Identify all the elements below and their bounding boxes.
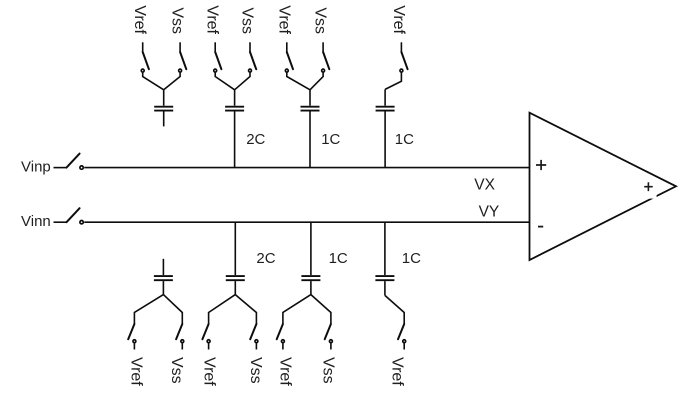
switch S7 (top bank3 Vref) bbox=[285, 42, 310, 90]
svg-text:1C: 1C bbox=[321, 131, 340, 148]
capacitor C1t (top dummy, floating) bbox=[154, 90, 173, 127]
svg-text:Vref: Vref bbox=[128, 357, 145, 386]
switch S6 (top bank2 Vss) bbox=[235, 42, 257, 90]
capacitor C4b 1C (bottom) bbox=[375, 222, 394, 295]
svg-text:Vss: Vss bbox=[168, 357, 185, 384]
svg-text:Vref: Vref bbox=[200, 357, 217, 386]
svg-text:Vss: Vss bbox=[320, 357, 337, 384]
svg-text:Vss: Vss bbox=[239, 7, 256, 34]
capacitor C2b 2C (bottom) bbox=[226, 222, 245, 294]
switch S3 (top bank1 Vref) bbox=[141, 42, 163, 90]
switch S11 (bottom bank1 Vss) bbox=[163, 295, 183, 350]
svg-text:Vref: Vref bbox=[275, 5, 292, 34]
switch S12 (bottom bank2 Vref) bbox=[202, 295, 235, 350]
wire bottom rail (node VY) bbox=[84, 221, 529, 223]
svg-text:Vref: Vref bbox=[277, 357, 294, 386]
svg-text:Vref: Vref bbox=[390, 5, 407, 34]
switch S13 (bottom bank2 Vss) bbox=[235, 295, 258, 350]
svg-text:1C: 1C bbox=[329, 250, 348, 267]
switch S2 (Vinn input) bbox=[54, 208, 84, 224]
svg-text:Vref: Vref bbox=[389, 357, 406, 386]
switch S14 (bottom bank3 Vref) bbox=[277, 295, 311, 350]
output polarity label + bbox=[641, 178, 657, 198]
svg-text:Vinn: Vinn bbox=[21, 213, 51, 230]
pin + (non-inverting input) bbox=[536, 160, 546, 170]
switch S15 (bottom bank3 Vss) bbox=[311, 295, 332, 350]
switch S8 (top bank3 Vss) bbox=[310, 42, 329, 90]
svg-text:Vref: Vref bbox=[204, 5, 221, 34]
pin - (inverting input) bbox=[538, 226, 543, 228]
capacitor C3t 1C (top) bbox=[301, 90, 320, 168]
switch S16 (bottom bank4 Vref) bbox=[385, 295, 406, 349]
capacitor C1b (bottom dummy, floating) bbox=[154, 259, 173, 295]
switch S10 (bottom bank1 Vref) bbox=[128, 295, 163, 350]
svg-text:Vss: Vss bbox=[312, 7, 329, 34]
capacitor C2t 2C (top) bbox=[225, 90, 244, 168]
wire top rail (node VX) bbox=[84, 167, 529, 169]
capacitor C3b 1C (bottom) bbox=[301, 222, 320, 294]
svg-text:VY: VY bbox=[479, 203, 500, 220]
switch S4 (top bank1 Vss) bbox=[164, 42, 187, 90]
op-amp U1 comparator bbox=[530, 113, 677, 260]
svg-text:1C: 1C bbox=[395, 131, 414, 148]
svg-text:Vss: Vss bbox=[247, 357, 264, 384]
switch S5 (top bank2 Vref) bbox=[214, 42, 235, 90]
capacitor C4t 1C (top) bbox=[376, 89, 395, 167]
svg-text:Vref: Vref bbox=[131, 5, 148, 34]
svg-text:VX: VX bbox=[474, 176, 495, 193]
svg-text:1C: 1C bbox=[402, 250, 421, 267]
svg-text:Vinp: Vinp bbox=[21, 158, 51, 175]
svg-text:2C: 2C bbox=[246, 131, 265, 148]
switch S1 (Vinp input) bbox=[54, 154, 84, 170]
switch S9 (top bank4 Vref) bbox=[385, 42, 408, 89]
svg-text:Vss: Vss bbox=[169, 7, 186, 34]
svg-text:2C: 2C bbox=[256, 250, 275, 267]
